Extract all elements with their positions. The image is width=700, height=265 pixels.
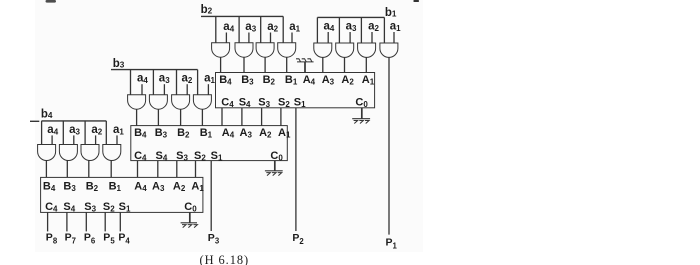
wire a2b4 to U3.B2 xyxy=(88,160,90,177)
AND gate G1b (a3·b1) xyxy=(336,43,354,57)
wire b3 bus drop to gate G3a input xyxy=(130,70,132,95)
wire U3.S2 to output P5 xyxy=(104,212,106,231)
wire a1 input stub to gate G1d xyxy=(393,32,395,43)
wire a4 input stub to gate G3a xyxy=(141,84,143,95)
wire b3 bus drop to gate G3b input xyxy=(152,70,154,95)
svg-text:b4: b4 xyxy=(41,109,53,121)
wire a4b4 to U3.B4 xyxy=(45,160,47,177)
wire a2 input stub to gate G3c xyxy=(186,84,188,95)
wire a1b4 to U3.B1 xyxy=(110,160,112,177)
svg-text:b2: b2 xyxy=(201,4,213,16)
wire a3b3 to U2.B3 xyxy=(157,109,159,125)
ground (logic 0) tied to U3.C0 xyxy=(189,212,191,222)
wire a3 input stub to gate G4b xyxy=(73,135,75,144)
AND gate G1c (a2·b1) xyxy=(358,43,376,57)
wire U1.C4 to U2.A4 xyxy=(221,108,223,126)
ground (logic 0) tied to U1.C0 xyxy=(361,108,363,119)
wire a1 input stub to gate G2d xyxy=(291,33,293,43)
wire a2b1 to U1.A1 xyxy=(365,57,367,72)
wire b4 bus drop to gate G4a input xyxy=(41,121,43,145)
svg-text:b3: b3 xyxy=(113,58,125,70)
wire a3b2 to U1.B3 xyxy=(243,57,245,72)
wire b2 bus drop to gate G2a input xyxy=(215,16,217,42)
wire b1 bus drop to gate G1a input xyxy=(316,17,318,43)
4-bit adder U1 body xyxy=(216,73,375,108)
wire a3b4 to U3.B3 xyxy=(66,160,68,177)
wire b2 bus drop to gate G2c input xyxy=(260,16,262,42)
scan region tint xyxy=(35,0,423,252)
wire U1.S3 to U2.A2 xyxy=(261,108,263,126)
wire b2 bus drop to gate G2d input xyxy=(282,16,284,42)
AND gate G1a (a4·b1) xyxy=(314,43,332,57)
wire a1 input stub to gate G4d xyxy=(116,135,118,144)
wire U2.S2 to U3.A1 xyxy=(195,161,197,178)
wire a4 input stub to gate G2a xyxy=(225,33,227,43)
wire a4 input stub to gate G1a xyxy=(327,32,329,43)
wire a2 input stub to gate G2c xyxy=(270,33,272,43)
wire U3.S3 to output P6 xyxy=(85,212,87,231)
AND gate G3c (a2·b3) xyxy=(172,95,190,109)
wire b4 bus drop to gate G4d input xyxy=(105,121,107,145)
AND gate G3a (a4·b3) xyxy=(128,95,146,109)
wire b1 bus drop to gate G1c input xyxy=(360,17,362,43)
wire U2.S3 to U3.A2 xyxy=(176,161,178,178)
wire b4 bus xyxy=(42,120,107,122)
wire a3b1 to U1.A2 xyxy=(344,57,346,72)
4-bit adder U2 body xyxy=(131,126,287,161)
wire U1.S4 to U2.A3 xyxy=(241,108,243,126)
wire b4 bus drop to gate G4c input xyxy=(84,121,86,145)
wire a1 input stub to gate G3d xyxy=(207,84,209,95)
AND gate G2a (a4·b2) xyxy=(212,43,230,57)
AND gate G2b (a3·b2) xyxy=(235,43,253,57)
wire a4 input stub to gate G4a xyxy=(51,135,53,144)
AND gate G4c (a2·b4) xyxy=(81,145,99,161)
wire b4 bus drop to gate G4b input xyxy=(62,121,64,145)
wire U2.S1 to output P3 xyxy=(210,161,212,231)
wire a3 input stub to gate G2b xyxy=(248,33,250,43)
svg-text:b1: b1 xyxy=(385,7,397,19)
wire b3 bus drop to gate G3c input xyxy=(176,70,178,95)
wire a1b3 to U2.B1 xyxy=(201,109,203,125)
wire a2b3 to U2.B2 xyxy=(180,109,182,125)
wire U3.S4 to output P7 xyxy=(66,212,68,231)
wire b2 bus drop to gate G2b input xyxy=(238,16,240,42)
wire a1b2 to U1.B1 xyxy=(286,57,288,72)
wire b3 bus drop to gate G3d input xyxy=(197,70,199,95)
wire b1 bus drop to gate G1d input xyxy=(383,17,385,43)
wire a3 input stub to gate G1b xyxy=(349,32,351,43)
wire U3.S1 to output P4 xyxy=(119,212,121,231)
wire b3 bus xyxy=(111,69,198,71)
AND gate G3d (a1·b3) xyxy=(193,95,211,109)
wire b4 bus left segment xyxy=(30,120,39,122)
wire a4b1 to U1.A3 xyxy=(322,57,324,72)
AND gate G4b (a3·b4) xyxy=(59,145,77,161)
wire U2.S4 to U3.A3 xyxy=(157,161,159,178)
wire U1.S2 to U2.A1 xyxy=(280,108,282,126)
wire b1 bus xyxy=(317,16,384,18)
wire a2b2 to U1.B2 xyxy=(264,57,266,72)
ground (logic 0) tied to U1.A4 xyxy=(304,62,306,73)
wire b2 bus xyxy=(201,15,283,17)
4-bit adder U3 body xyxy=(41,177,203,212)
AND gate G1d (a1·b1) xyxy=(380,43,398,57)
wire b1 bus drop to gate G1b input xyxy=(338,17,340,43)
scan artifact smudge top-left xyxy=(46,0,57,3)
AND gate G4d (a1·b4) xyxy=(103,145,121,161)
svg-text:(H 6.18): (H 6.18) xyxy=(200,253,250,265)
ground (logic 0) tied to U2.C0 xyxy=(274,161,276,171)
wire a2 input stub to gate G1c xyxy=(371,32,373,43)
wire a4b2 to U1.B4 xyxy=(220,57,222,72)
wire a4b3 to U2.B4 xyxy=(136,109,138,125)
wire a2 input stub to gate G4c xyxy=(95,135,97,144)
AND gate G3b (a3·b3) xyxy=(149,95,167,109)
wire a3 input stub to gate G3b xyxy=(163,84,165,95)
wire a1b1 to output P1 xyxy=(388,57,390,234)
AND gate G2c (a2·b2) xyxy=(256,43,274,57)
AND gate G2d (a1·b2) xyxy=(278,43,296,57)
scan artifact smudge top-right xyxy=(413,0,419,2)
wire U1.S1 to output P2 xyxy=(295,108,297,231)
wire U2.C4 to U3.A4 xyxy=(137,161,139,178)
AND gate G4a (a4·b4) xyxy=(38,145,56,161)
wire U3.C4 to output P8 xyxy=(47,212,49,231)
